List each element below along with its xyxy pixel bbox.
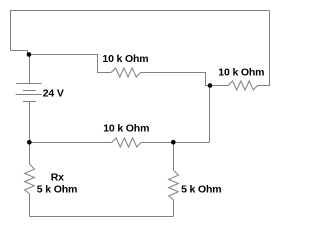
node B junction dot bbox=[208, 83, 213, 88]
node A junction dot bbox=[27, 52, 32, 57]
svg-text:24 V: 24 V bbox=[43, 87, 64, 99]
wire: node D down to resistor R5 bbox=[173, 143, 175, 171]
resistor R1 10 k Ohm (top horizontal) bbox=[111, 68, 141, 77]
wire: jog into node A (horizontal then short drop) bbox=[11, 51, 28, 55]
svg-text:10 k Ohm: 10 k Ohm bbox=[218, 67, 264, 79]
resistor R5 5 k Ohm (right vertical) bbox=[169, 170, 179, 200]
wire: Rx bottom terminal down to bottom rail bbox=[29, 194, 31, 217]
node C junction dot bbox=[27, 140, 32, 145]
resistor R3 10 k Ohm (middle horizontal) bbox=[112, 138, 142, 147]
resistor Rx 5 k Ohm (left vertical) bbox=[25, 164, 35, 194]
svg-text:10 k Ohm: 10 k Ohm bbox=[103, 122, 149, 134]
svg-text:5 k Ohm: 5 k Ohm bbox=[37, 183, 77, 195]
svg-text:10 k Ohm: 10 k Ohm bbox=[102, 53, 148, 65]
wire: R3 right terminal through node D to riser corner bbox=[141, 142, 210, 144]
svg-text:5 k Ohm: 5 k Ohm bbox=[181, 183, 221, 195]
wire: node C to left terminal of resistor R3 bbox=[30, 142, 112, 144]
battery V1 plate: long top bbox=[16, 83, 42, 85]
svg-text:Rx: Rx bbox=[51, 171, 64, 183]
wire: top rail from top-left corner to top-right corner bbox=[11, 10, 270, 12]
node D junction dot bbox=[171, 140, 176, 145]
battery V1 plate: short upper bbox=[23, 90, 36, 92]
wire: bottom rail bbox=[30, 216, 174, 218]
wire: node C down to resistor Rx bbox=[29, 143, 31, 165]
wire: R1 right terminal over to drop into node B bbox=[141, 73, 211, 86]
wire: left vertical from top rail down to node A jog bbox=[10, 10, 12, 51]
wire: riser from node B down to middle wire bbox=[209, 86, 211, 143]
wire: R5 bottom terminal down to bottom rail bbox=[173, 200, 175, 217]
wire: node A to left terminal of resistor R1 bbox=[28, 55, 112, 73]
wire: R2 right terminal up the right side to top rail bbox=[258, 11, 270, 86]
battery V1 plate: long lower bbox=[16, 94, 42, 96]
battery V1 plate: short bottom bbox=[23, 101, 36, 103]
battery V1 positive lead from node A bbox=[29, 55, 31, 84]
resistor R2 10 k Ohm (right horizontal) bbox=[228, 81, 258, 90]
wire: node B to left terminal of resistor R2 bbox=[210, 85, 228, 87]
battery V1 negative lead down to node C bbox=[29, 102, 31, 143]
